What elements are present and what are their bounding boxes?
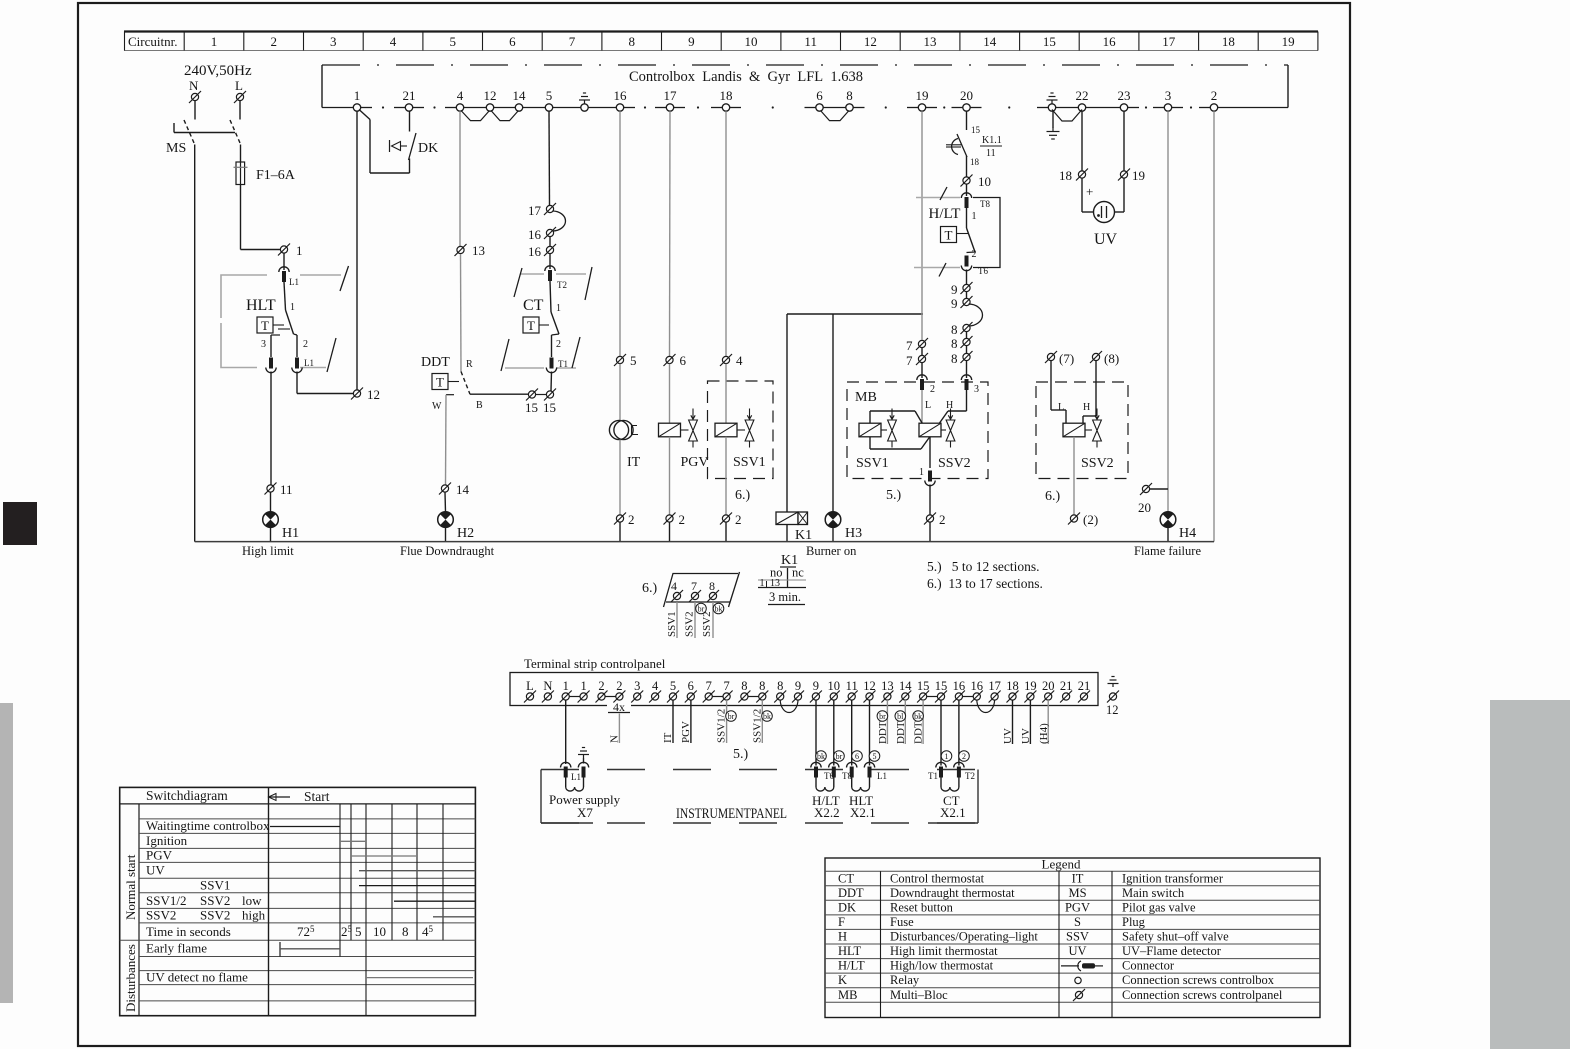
svg-text:10: 10 (373, 924, 386, 939)
legend table frame (825, 858, 1320, 1018)
HLT contact 2 (294, 334, 298, 335)
MB SSV1 valve (888, 409, 897, 448)
MS link tick (173, 123, 175, 133)
wire between screws 15 15 (536, 394, 547, 396)
strip screw L (524, 691, 536, 703)
screw 8 middle (961, 336, 973, 348)
PGV valve (689, 409, 698, 448)
connector T2 strip (954, 762, 964, 777)
wire colour bk (816, 751, 827, 762)
relay contact K1.1 blade (957, 134, 967, 157)
svg-text:Time in seconds: Time in seconds (146, 924, 231, 939)
wire terminal 19 down (gray) (921, 111, 923, 340)
svg-text:X2.1: X2.1 (850, 805, 876, 820)
svg-text:Terminal strip controlpanel: Terminal strip controlpanel (524, 656, 666, 671)
screw 7 (689, 590, 701, 602)
svg-text:Early flame: Early flame (146, 941, 207, 956)
MB connector 1 (925, 471, 935, 486)
svg-text:8: 8 (951, 351, 958, 366)
svg-text:3 min.: 3 min. (769, 590, 801, 604)
svg-text:8: 8 (951, 336, 958, 351)
svg-text:Relay: Relay (890, 973, 920, 987)
wire diagonal to valve point (915, 411, 930, 437)
screw 1 (278, 244, 290, 256)
strip screw 21 (1078, 691, 1090, 703)
screw (2) (1068, 513, 1080, 525)
svg-text:2: 2 (616, 679, 622, 693)
screw 20 (1140, 483, 1152, 495)
svg-text:2: 2 (303, 339, 308, 350)
svg-text:MB: MB (838, 988, 857, 1002)
underline 3 min. (768, 604, 805, 606)
svg-text:K1.1: K1.1 (982, 135, 1002, 146)
wire colour br (696, 603, 707, 614)
svg-text:8: 8 (846, 88, 853, 103)
wire screw19 to terminal 23 (1123, 111, 1125, 170)
wire to H/LT coil (815, 778, 817, 788)
power supply earth connector (578, 762, 588, 777)
wire ground terminal to earth (1052, 111, 1054, 129)
HLT T link (273, 324, 284, 326)
controlbox terminal 19 (918, 104, 925, 111)
MB SSV2 valve (946, 409, 955, 448)
controlbox terminal 5 (545, 104, 552, 111)
svg-text:11: 11 (280, 482, 293, 497)
svg-text:UV: UV (146, 863, 165, 878)
jumper loop 16-17 below strip (977, 700, 995, 713)
controlbox right edge (1287, 65, 1289, 108)
SSV2 valve link (1085, 429, 1092, 431)
DDT blade (461, 372, 470, 395)
bar SSV1/2 low (394, 900, 475, 902)
H/LT T link (957, 233, 969, 235)
svg-text:21: 21 (1060, 679, 1073, 693)
svg-text:DDT: DDT (877, 721, 889, 744)
svg-text:DDT: DDT (895, 721, 907, 744)
CT contact 2 step (552, 334, 560, 335)
svg-text:9: 9 (688, 34, 695, 49)
screw 9 upper (961, 282, 973, 294)
svg-text:SSV2: SSV2 (200, 893, 230, 908)
timing grid verticals (269, 787, 444, 1015)
svg-text:nc: nc (792, 566, 804, 580)
svg-text:3: 3 (330, 34, 337, 49)
svg-text:16: 16 (1103, 34, 1117, 49)
wire colour bk (913, 711, 924, 722)
strip screw 15 (935, 691, 947, 703)
screw 2 (664, 513, 676, 525)
strip screw 6 (685, 691, 697, 703)
wire terminal1 down to screw 12 (356, 111, 358, 390)
svg-text:5: 5 (670, 679, 676, 693)
svg-text:Safety shut–off valve: Safety shut–off valve (1122, 930, 1229, 944)
jumper terminals 12-14 (491, 111, 519, 121)
SSV1 dashed box (708, 381, 774, 479)
svg-text:X2.2: X2.2 (814, 805, 840, 820)
right gray strip (1490, 700, 1570, 1049)
svg-text:High limit: High limit (242, 544, 294, 558)
svg-text:4: 4 (457, 88, 464, 103)
screw 7 upper (916, 338, 928, 350)
wire to K1 coil (786, 314, 788, 512)
svg-text:9: 9 (951, 296, 958, 311)
HLT thermostat actuator T (257, 317, 273, 333)
wire terminal 21 to DK (409, 111, 411, 131)
wire terminal 22 down (1081, 111, 1083, 170)
wire colour bk (713, 603, 724, 614)
strip screw 8 (756, 691, 768, 703)
svg-text:Normal start: Normal start (123, 854, 138, 920)
svg-text:8: 8 (402, 924, 409, 939)
K1 table divider (787, 568, 789, 588)
legend connector symbol (1061, 965, 1079, 967)
safety shut-off valve SSV1 coil (715, 423, 737, 437)
svg-text:7: 7 (723, 679, 729, 693)
wire DK loop bottom (370, 172, 410, 174)
svg-text:Circuitnr.: Circuitnr. (128, 34, 177, 49)
controlbox terminal 22 (1078, 104, 1085, 111)
black edge tab (3, 502, 37, 545)
svg-text:PGV: PGV (680, 721, 692, 743)
svg-text:H: H (1083, 402, 1090, 413)
PGV valve link (681, 429, 689, 431)
wire SSV2 (694, 602, 696, 638)
jumper ground to terminal 22 (1052, 110, 1082, 122)
svg-text:Pilot gas valve: Pilot gas valve (1122, 900, 1196, 914)
wire colour bk (762, 711, 773, 722)
svg-text:5: 5 (630, 353, 637, 368)
svg-text:L1: L1 (304, 358, 314, 368)
bar PGV (351, 855, 416, 857)
jumper link 16-16 (963, 696, 974, 698)
screw 14 (439, 483, 451, 495)
wire strip 18 (UV) (1012, 700, 1014, 744)
strip screw 13 (881, 691, 893, 703)
svg-text:4: 4 (652, 679, 659, 693)
controlbox terminal 16 (616, 104, 623, 111)
wire (8) down (1095, 361, 1097, 416)
wire strip 2 (N) (618, 714, 620, 744)
jumper link 15-15 (927, 696, 938, 698)
jumper terminals 4-12 (461, 111, 490, 121)
DK blade (409, 133, 417, 160)
svg-text:Waitingtime controlbox: Waitingtime controlbox (146, 818, 270, 833)
svg-text:2: 2 (679, 512, 686, 527)
H/LT thermostat actuator T (941, 227, 957, 243)
panel slash CT bottom right (572, 337, 580, 368)
controlbox terminal 21 (405, 104, 412, 111)
wire contact2 down (296, 372, 298, 394)
svg-text:SSV1/2: SSV1/2 (146, 893, 186, 908)
strip screw 1 (560, 691, 572, 703)
svg-text:6: 6 (688, 679, 694, 693)
svg-text:DDT: DDT (421, 355, 450, 370)
svg-text:13: 13 (924, 34, 937, 49)
svg-text:20: 20 (960, 88, 973, 103)
svg-text:17: 17 (528, 203, 542, 218)
svg-text:T6: T6 (978, 266, 988, 276)
screw 9 lower (961, 296, 973, 308)
CT wire contact 1 (550, 281, 551, 312)
jumper link 2-2 (605, 696, 616, 698)
screw 5 (614, 354, 626, 366)
start arrow (269, 796, 291, 798)
strip screw 9 (810, 691, 822, 703)
switchdiagram header line (120, 803, 476, 805)
svg-text:Disturbances/Operating–light: Disturbances/Operating–light (890, 930, 1038, 944)
svg-text:6: 6 (855, 752, 859, 761)
svg-text:S: S (1074, 915, 1081, 929)
svg-text:6.) 13 to 17 sections.: 6.) 13 to 17 sections. (927, 576, 1043, 591)
left gray strip (0, 703, 13, 1003)
SSV1 valve (745, 409, 754, 448)
svg-text:8: 8 (709, 579, 715, 593)
svg-text:1: 1 (556, 303, 561, 314)
svg-text:Ignition transformer: Ignition transformer (1122, 871, 1224, 885)
wire H diagonal to valve point (930, 411, 948, 437)
power supply connector L1 (561, 762, 571, 777)
terminal strip box (510, 673, 1098, 706)
svg-text:1: 1 (580, 679, 586, 693)
svg-text:T1: T1 (928, 771, 938, 781)
svg-text:DDT: DDT (838, 886, 864, 900)
svg-text:L1: L1 (571, 772, 581, 782)
svg-text:12: 12 (1106, 703, 1119, 717)
screw 19 (1118, 169, 1130, 181)
screw 4 (671, 590, 683, 602)
svg-text:16: 16 (953, 679, 966, 693)
bar ignition (340, 840, 366, 842)
svg-text:CT: CT (523, 297, 544, 314)
wire strip 6 (PGV) (690, 700, 692, 743)
H/LT blade (967, 228, 976, 252)
strip ground screw (1107, 691, 1119, 703)
MB dashed box (847, 382, 988, 479)
screw 2 (614, 513, 626, 525)
wire to bus (725, 522, 727, 541)
strip screw 19 (1024, 691, 1036, 703)
svg-text:11: 11 (986, 148, 996, 159)
svg-text:5.) 5 to 12 sections.: 5.) 5 to 12 sections. (927, 559, 1040, 574)
controlbox terminal 1 (353, 104, 360, 111)
svg-text:br: br (728, 712, 735, 721)
connector T6 bottom (961, 256, 971, 271)
svg-text:N: N (189, 78, 199, 93)
svg-text:240V,50Hz: 240V,50Hz (184, 63, 252, 79)
connector L1 top (279, 267, 289, 282)
screw (8) (1090, 351, 1102, 363)
svg-text:T8: T8 (980, 199, 990, 209)
strip screw 5 (667, 691, 679, 703)
connector L1 strip (864, 762, 874, 777)
svg-text:Burner on: Burner on (806, 544, 857, 558)
svg-text:1: 1 (945, 752, 949, 761)
svg-text:5: 5 (873, 752, 877, 761)
svg-text:14: 14 (983, 34, 997, 49)
svg-text:18: 18 (1222, 34, 1235, 49)
svg-text:T1: T1 (558, 359, 568, 369)
wire L to SSV2 coil (gray) (921, 390, 923, 423)
strip screw 14 (899, 691, 911, 703)
panel slash HLT bottom right (327, 338, 336, 372)
ignition transformer IT (609, 420, 628, 439)
svg-text:11: 11 (846, 679, 858, 693)
CT contact 2 wire (551, 335, 553, 357)
wire screw5 to IT (619, 364, 621, 421)
svg-text:2: 2 (735, 512, 742, 527)
wire DDT B to screw 15 (470, 393, 528, 395)
wire H4 to bus (1167, 527, 1169, 541)
svg-text:L1: L1 (289, 277, 299, 287)
svg-text:K: K (838, 973, 847, 987)
strip screw 16 (971, 691, 983, 703)
svg-text:UV detect no flame: UV detect no flame (146, 970, 248, 985)
panel slash CT top right (585, 267, 592, 300)
svg-text:N: N (543, 679, 552, 693)
wire connector1 to screw 2 (929, 485, 931, 515)
svg-text:6: 6 (680, 353, 687, 368)
wire to screw 1 (241, 249, 281, 251)
svg-text:UV: UV (1020, 728, 1032, 744)
wire colour br (726, 711, 737, 722)
screw 7 lower (916, 353, 928, 365)
svg-text:8: 8 (951, 322, 958, 337)
wire valve point to connector 1 (929, 437, 931, 469)
svg-text:H: H (946, 400, 953, 411)
controlbox terminal 14 (515, 104, 522, 111)
svg-text:3: 3 (261, 339, 266, 350)
wire SSV2 to screw (2) (1073, 437, 1075, 515)
switchdiagram label column divider (138, 804, 140, 1016)
wire H down (966, 390, 968, 411)
controlbox terminal 8 (846, 104, 853, 111)
wire colour br (877, 711, 888, 722)
screw 8 upper (961, 322, 973, 334)
svg-text:9: 9 (813, 679, 819, 693)
svg-text:MS: MS (166, 141, 186, 156)
wire DK bottom contact (409, 159, 411, 174)
ground symbol at controlbox terminal (1047, 93, 1058, 104)
wire terminal 17 down (gray) (669, 111, 672, 356)
svg-text:Flame failure: Flame failure (1134, 544, 1201, 558)
bottom bus wire (195, 541, 1214, 543)
wire screw7 to MB connector 2 (921, 363, 923, 378)
svg-text:22: 22 (1076, 88, 1089, 103)
svg-text:T2: T2 (965, 771, 975, 781)
svg-text:4: 4 (390, 34, 397, 49)
svg-text:H4: H4 (1179, 526, 1196, 541)
svg-text:UV: UV (1068, 944, 1086, 958)
svg-text:1: 1 (290, 302, 295, 313)
svg-text:SSV2: SSV2 (146, 908, 176, 923)
svg-text:9: 9 (795, 679, 801, 693)
svg-text:br: br (836, 752, 843, 761)
svg-text:8: 8 (741, 679, 747, 693)
svg-text:SSV1: SSV1 (856, 456, 889, 471)
wire (7) down (1050, 361, 1052, 410)
wire screw14 to lamp H2 (444, 493, 447, 512)
HLT X2.1 winding (852, 787, 870, 791)
svg-text:20: 20 (1138, 500, 1151, 515)
svg-text:6.): 6.) (642, 581, 658, 596)
wire screw8 to MB connector 3 (966, 361, 968, 378)
MS blade N pole (184, 120, 195, 145)
wire terminal 18 down (gray) (725, 111, 727, 356)
wire L into coil (1065, 410, 1067, 423)
SSV2 valve (1093, 409, 1102, 448)
HLT wire contact 1 (284, 282, 286, 310)
wire strip 9 to H/LT T6 (815, 700, 817, 765)
wire up to screw 19 (1123, 178, 1125, 212)
svg-text:18: 18 (720, 88, 733, 103)
wire to screw 9 (966, 270, 968, 285)
svg-text:(7): (7) (1059, 351, 1074, 366)
wire strip 1 to power supply (565, 700, 567, 764)
panel slash CT bottom left (501, 339, 509, 371)
svg-text:DK: DK (838, 900, 856, 914)
svg-text:1: 1 (296, 243, 303, 258)
screw 15 left (526, 389, 538, 401)
svg-text:HLT: HLT (246, 297, 276, 314)
wire screw20 tick (1150, 488, 1168, 490)
svg-text:H3: H3 (845, 526, 862, 541)
wire screw13 to DDT R (460, 254, 463, 372)
K1.1 actuator arc (952, 139, 958, 155)
svg-text:Legend: Legend (1042, 857, 1081, 872)
wire H left (948, 410, 967, 412)
HLT contact 3 (271, 334, 280, 336)
connector block parallelogram (664, 574, 739, 608)
lamp H4 (1160, 512, 1176, 528)
svg-text:13: 13 (881, 679, 894, 693)
connector T2 (545, 266, 555, 281)
svg-text:SSV2: SSV2 (701, 611, 713, 637)
svg-text:3: 3 (974, 384, 979, 395)
bar UV (359, 870, 475, 872)
svg-text:7: 7 (706, 679, 712, 693)
svg-text:12: 12 (484, 88, 497, 103)
svg-text:3: 3 (634, 679, 640, 693)
svg-text:3: 3 (1165, 88, 1172, 103)
svg-text:6: 6 (816, 88, 823, 103)
SSV1 valve link (737, 429, 745, 431)
MB connector 2 (917, 375, 927, 390)
screw L (234, 91, 246, 103)
ground symbol at controlbox terminal (579, 93, 590, 104)
switchdiagram table frame (120, 787, 476, 1015)
svg-text:7: 7 (691, 579, 697, 593)
svg-text:2: 2 (556, 339, 561, 350)
power supply transformer (565, 778, 567, 788)
controlbox terminal line (dash-dot stubs) (322, 106, 1288, 108)
jumper link 7-7 (712, 696, 723, 698)
svg-text:12: 12 (367, 387, 380, 402)
controlbox terminal 17 (666, 104, 673, 111)
wire N to MS (194, 101, 196, 120)
svg-text:IT: IT (627, 455, 641, 470)
svg-text:Switchdiagram: Switchdiagram (146, 788, 228, 803)
svg-text:SSV2: SSV2 (684, 611, 696, 637)
H/LT contact 2 step (967, 251, 976, 254)
CT panel boundary (gray) (505, 274, 586, 368)
svg-text:L1: L1 (877, 771, 887, 781)
wire H into coil (1082, 416, 1084, 423)
wire L to fuse (240, 145, 242, 163)
svg-text:2: 2 (939, 512, 946, 527)
wire screw10 to H/LT connector (966, 184, 968, 196)
svg-text:10: 10 (828, 679, 841, 693)
H/LT panel boundary (gray) (914, 198, 960, 268)
